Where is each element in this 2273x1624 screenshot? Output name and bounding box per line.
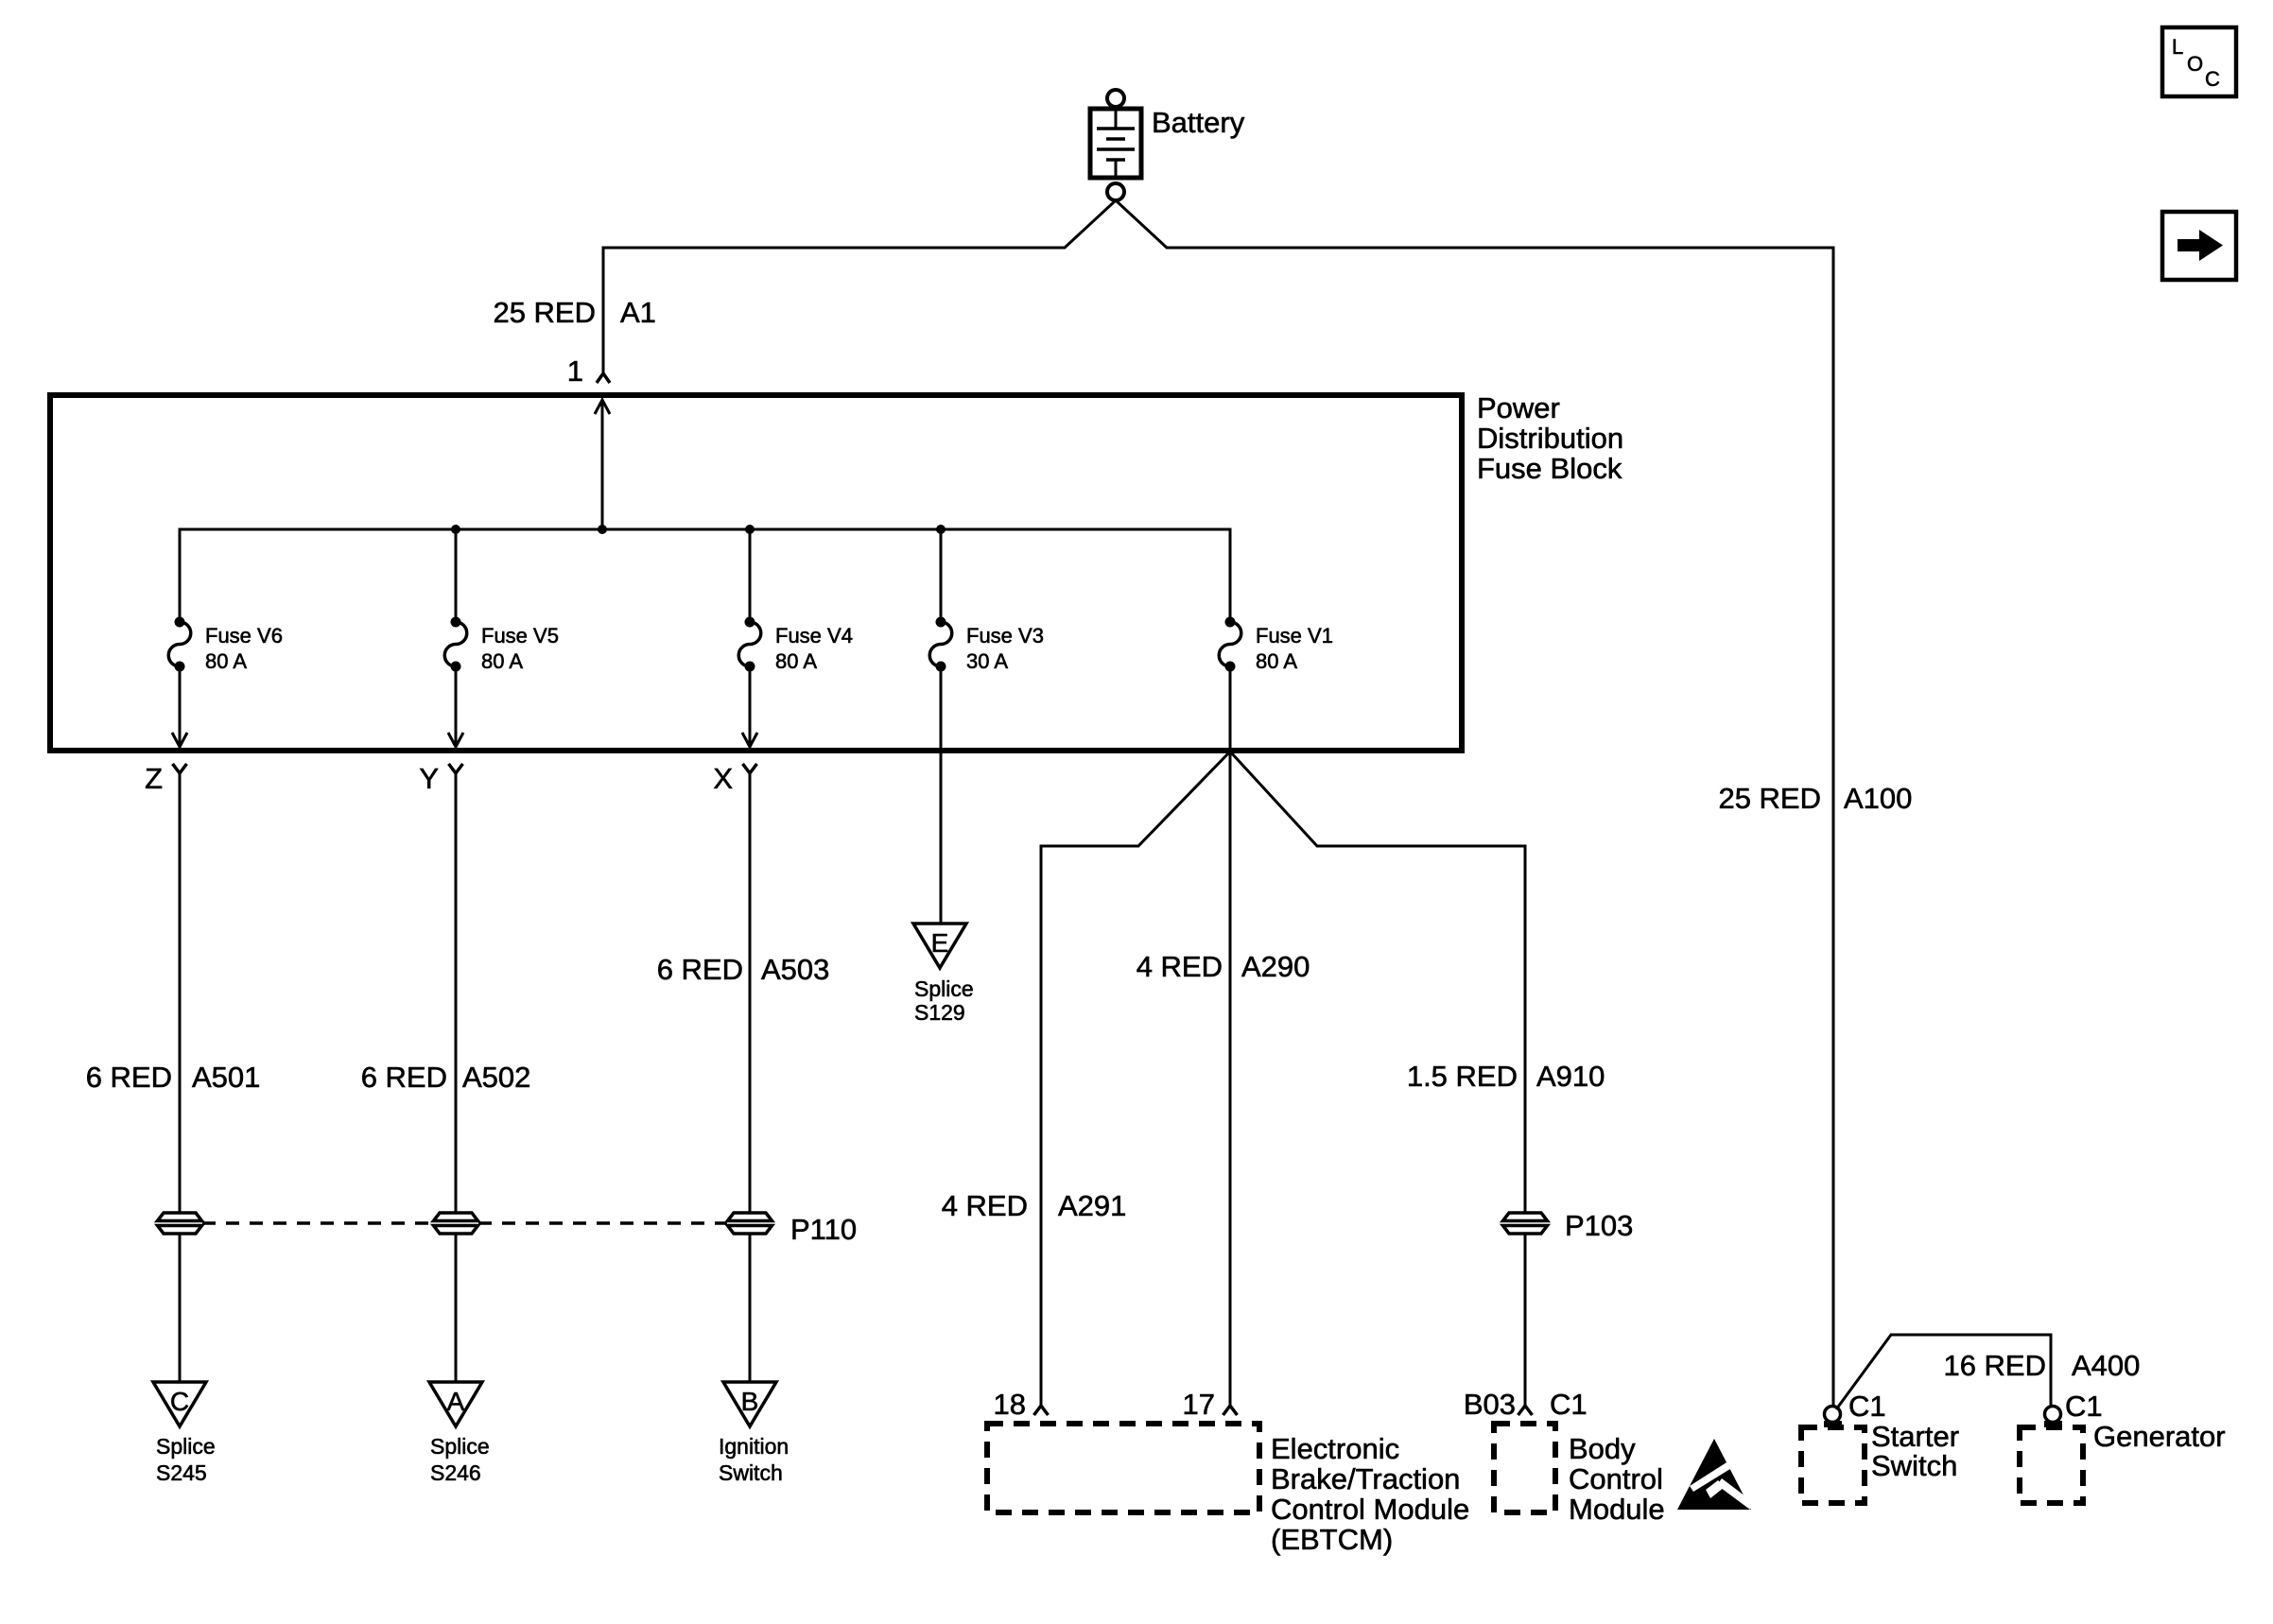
- svg-text:4 RED: 4 RED: [1136, 950, 1223, 983]
- svg-text:C1: C1: [1848, 1390, 1886, 1423]
- svg-text:Control Module: Control Module: [1271, 1493, 1469, 1526]
- svg-text:Fuse Block: Fuse Block: [1477, 452, 1622, 485]
- svg-text:C: C: [2205, 67, 2220, 91]
- fuse V3: [929, 617, 1044, 674]
- svg-text:Fuse V3: Fuse V3: [966, 624, 1044, 648]
- svg-text:A400: A400: [2072, 1349, 2140, 1382]
- svg-text:L: L: [2172, 35, 2183, 59]
- svg-text:C: C: [170, 1387, 189, 1416]
- svg-text:S246: S246: [430, 1460, 481, 1485]
- wire battery split left: [603, 200, 1116, 372]
- svg-text:80 A: 80 A: [481, 649, 523, 673]
- svg-text:C1: C1: [2065, 1390, 2103, 1423]
- connector P110 at x=482: [434, 1213, 478, 1221]
- Power Distribution Fuse Block box: [50, 395, 1462, 751]
- svg-text:Electronic: Electronic: [1271, 1432, 1399, 1465]
- svg-text:80 A: 80 A: [1256, 649, 1297, 673]
- svg-text:S245: S245: [156, 1460, 207, 1485]
- svg-text:A501: A501: [192, 1061, 260, 1094]
- LOC reference box: [2162, 27, 2236, 96]
- svg-text:(EBTCM): (EBTCM): [1271, 1523, 1393, 1556]
- svg-text:A100: A100: [1844, 782, 1912, 815]
- svg-text:A291: A291: [1058, 1189, 1126, 1222]
- ESD sensitive symbol: [1677, 1439, 1753, 1510]
- svg-text:30 A: 30 A: [966, 649, 1008, 673]
- svg-text:A1: A1: [620, 296, 656, 329]
- svg-text:A: A: [447, 1387, 465, 1416]
- junction dots on bus: [451, 525, 460, 534]
- wire: [179, 1234, 182, 1382]
- svg-text:Brake/Traction: Brake/Traction: [1271, 1462, 1460, 1495]
- wire: [749, 1234, 752, 1382]
- svg-text:4 RED: 4 RED: [942, 1189, 1028, 1222]
- svg-text:6 RED: 6 RED: [86, 1061, 172, 1094]
- svg-text:B03: B03: [1464, 1388, 1516, 1421]
- svg-text:Generator: Generator: [2093, 1420, 2226, 1453]
- continuation arrow box: [2162, 212, 2236, 280]
- svg-text:Y: Y: [419, 762, 439, 795]
- svg-text:Module: Module: [1569, 1493, 1665, 1526]
- svg-text:Ignition: Ignition: [719, 1434, 789, 1459]
- splice S245 triangle C: [153, 1382, 206, 1426]
- wire battery split right (to 25 RED A100): [1116, 200, 1833, 1407]
- connector Z: [145, 762, 186, 1213]
- wire fuse output with down arrow: [179, 671, 182, 746]
- dashed link P110: [202, 1221, 433, 1225]
- svg-text:6 RED: 6 RED: [657, 953, 743, 986]
- svg-text:A290: A290: [1241, 950, 1310, 983]
- fuse V5: [444, 617, 559, 674]
- svg-text:C1: C1: [1550, 1388, 1588, 1421]
- wire fuse V1 output: [1229, 671, 1232, 752]
- svg-text:O: O: [2187, 52, 2203, 76]
- svg-text:X: X: [713, 762, 733, 795]
- wire P103 to BCM: [1524, 1234, 1527, 1406]
- svg-text:A502: A502: [462, 1061, 530, 1094]
- svg-text:Fuse V4: Fuse V4: [775, 624, 853, 648]
- generator dashed box: [2020, 1427, 2083, 1503]
- svg-text:Fuse V1: Fuse V1: [1256, 624, 1333, 648]
- svg-text:Splice: Splice: [156, 1434, 216, 1459]
- svg-text:B: B: [741, 1387, 759, 1416]
- svg-text:Starter: Starter: [1871, 1420, 1959, 1453]
- wire V1 right branch: [1230, 752, 1525, 1213]
- connector chevron pin 1: [597, 373, 610, 383]
- wire fuse output with down arrow: [455, 671, 458, 746]
- svg-text:Battery: Battery: [1152, 106, 1245, 139]
- svg-text:Switch: Switch: [719, 1460, 783, 1485]
- svg-text:1: 1: [567, 354, 583, 388]
- wire V1 center branch: [1229, 752, 1232, 1406]
- svg-text:S129: S129: [914, 1000, 965, 1025]
- svg-text:17: 17: [1183, 1388, 1215, 1421]
- wire V1 split left branch: [1041, 752, 1230, 1406]
- svg-text:Splice: Splice: [914, 976, 974, 1001]
- bus wire: [180, 529, 1230, 617]
- splice S246 triangle A: [429, 1382, 482, 1426]
- connector P110 at x=190: [158, 1213, 202, 1221]
- svg-text:Fuse V5: Fuse V5: [481, 624, 559, 648]
- svg-text:80 A: 80 A: [205, 649, 247, 673]
- svg-text:25 RED: 25 RED: [493, 296, 596, 329]
- ignition switch triangle B: [723, 1382, 776, 1426]
- wire fuse V3 output: [940, 671, 943, 924]
- svg-text:Z: Z: [145, 762, 163, 795]
- connector P103: [1503, 1213, 1548, 1221]
- wire 16 RED A400: [1836, 1335, 2051, 1409]
- svg-text:A503: A503: [761, 953, 829, 986]
- connector X: [713, 762, 756, 1213]
- wire fuse output with down arrow: [749, 671, 752, 746]
- battery: [1090, 90, 1141, 200]
- connector P110 at x=793: [728, 1213, 772, 1221]
- Body Control Module dashed box: [1494, 1424, 1555, 1512]
- svg-text:Fuse V6: Fuse V6: [205, 624, 283, 648]
- EBTCM dashed box: [987, 1424, 1259, 1512]
- svg-text:80 A: 80 A: [775, 649, 817, 673]
- generator C1 circle: [2045, 1407, 2061, 1423]
- splice S129 triangle E: [913, 924, 966, 968]
- fuse V1: [1219, 617, 1333, 674]
- starter switch dashed box: [1801, 1427, 1865, 1503]
- svg-text:P110: P110: [790, 1213, 857, 1246]
- svg-text:Power: Power: [1477, 391, 1560, 424]
- svg-text:Distribution: Distribution: [1477, 422, 1623, 455]
- svg-text:P103: P103: [1565, 1209, 1633, 1242]
- svg-text:1.5 RED: 1.5 RED: [1407, 1060, 1518, 1093]
- svg-text:18: 18: [994, 1388, 1026, 1421]
- svg-text:A910: A910: [1536, 1060, 1605, 1093]
- svg-text:Control: Control: [1569, 1462, 1663, 1495]
- svg-text:E: E: [931, 928, 949, 958]
- svg-text:Body: Body: [1569, 1432, 1636, 1465]
- connector Y: [419, 762, 462, 1213]
- svg-text:6 RED: 6 RED: [361, 1061, 447, 1094]
- starter switch C1 circle: [1825, 1407, 1841, 1423]
- svg-text:Switch: Switch: [1871, 1449, 1957, 1482]
- wire feed into block with up arrow: [601, 401, 604, 529]
- fuse V6: [168, 617, 283, 674]
- fuse V4: [738, 617, 853, 674]
- svg-text:Splice: Splice: [430, 1434, 490, 1459]
- wire: [455, 1234, 458, 1382]
- svg-text:16 RED: 16 RED: [1943, 1349, 2046, 1382]
- svg-text:25 RED: 25 RED: [1718, 782, 1821, 815]
